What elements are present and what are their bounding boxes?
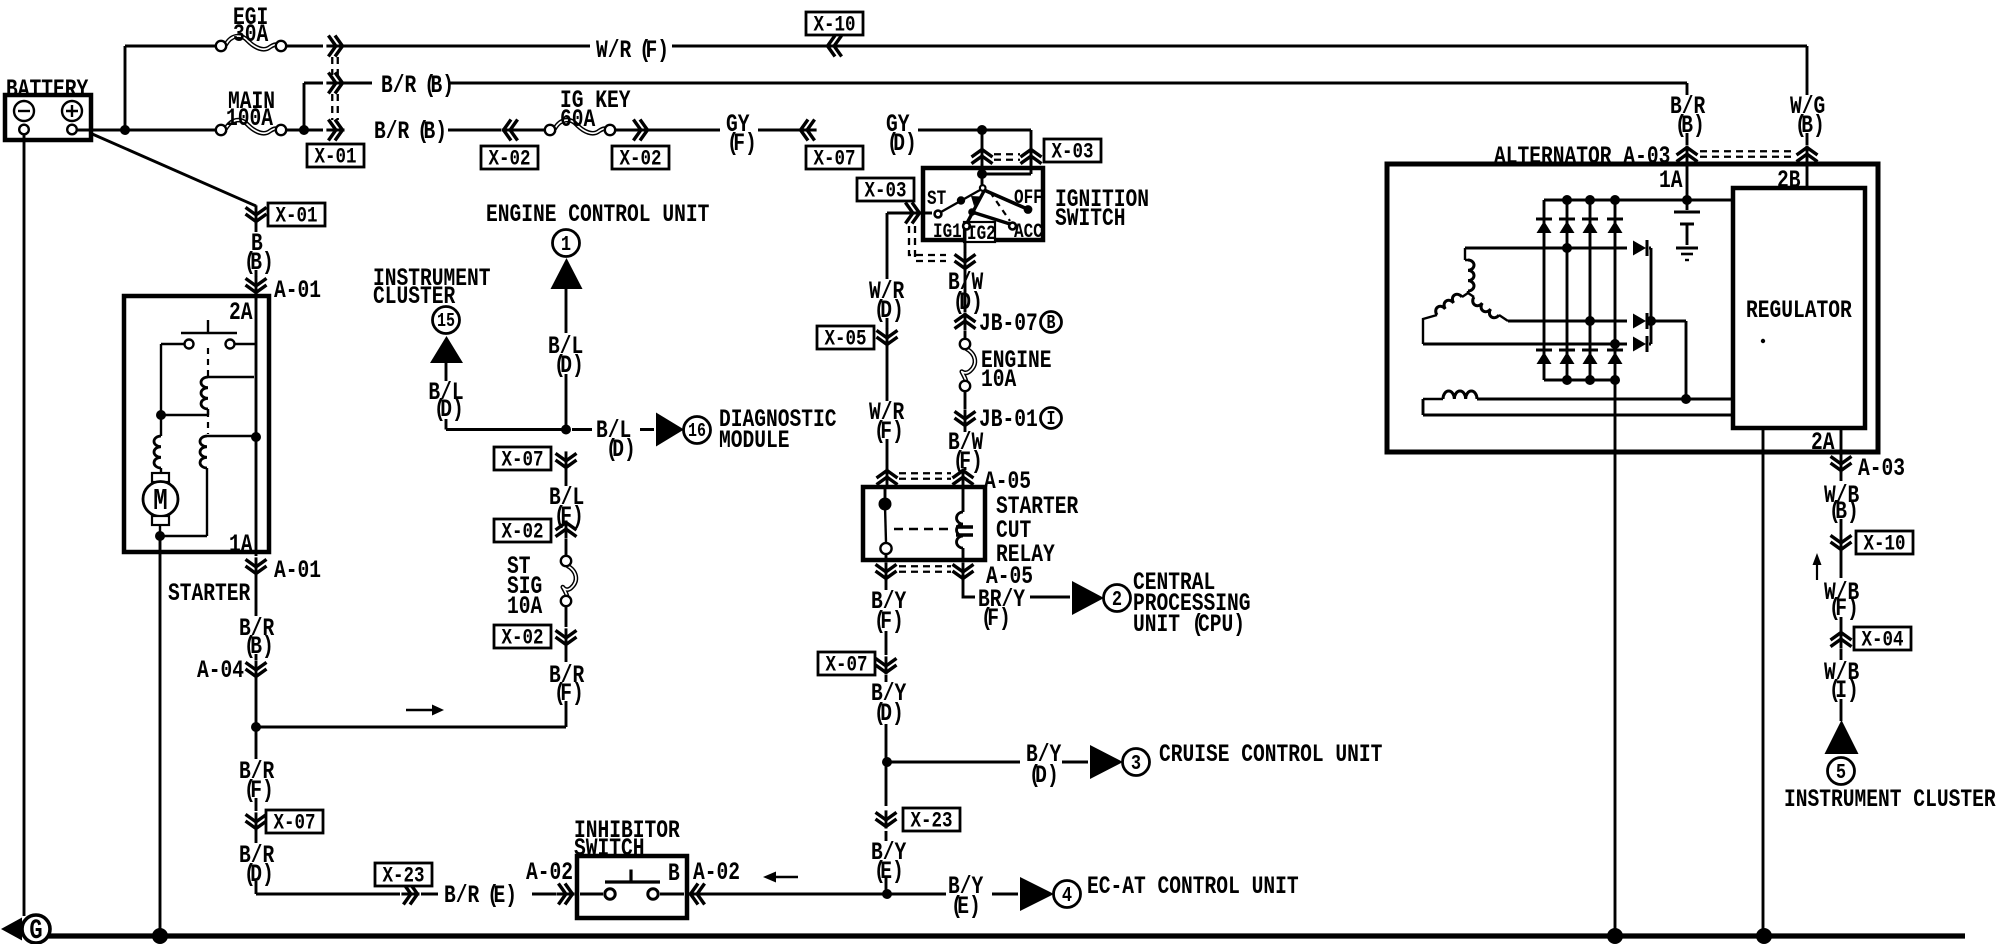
connector X-03 chevron ST wire	[903, 212, 921, 215]
wire ST to W/R	[887, 212, 932, 215]
regulator mark	[1761, 339, 1765, 343]
svg-text:(F): (F)	[554, 679, 584, 708]
svg-text:CRUISE CONTROL UNIT: CRUISE CONTROL UNIT	[1159, 740, 1382, 769]
svg-text:A-01: A-01	[274, 276, 321, 305]
ignition arm to ACC	[968, 208, 976, 216]
svg-text:100A: 100A	[226, 104, 274, 133]
wire starter motor to ground rail	[159, 536, 162, 936]
rectifier bottom bus	[1544, 379, 1615, 382]
wire B/W (D) seg	[964, 270, 967, 312]
svg-text:X-03: X-03	[865, 179, 907, 205]
svg-text:IG1: IG1	[933, 222, 962, 244]
node battery feed junction	[120, 125, 130, 135]
node B/L junction	[561, 425, 571, 435]
ignition ACC terminal	[1009, 223, 1016, 230]
wire W/R (D) seg	[886, 213, 889, 329]
wire W/R (F) seg2	[672, 45, 827, 48]
ignition dashed arm	[990, 192, 1010, 221]
wire EGI row left	[125, 45, 216, 48]
svg-text:(F): (F)	[727, 129, 757, 158]
svg-text:OFF: OFF	[1014, 188, 1043, 210]
node top bus d4	[1610, 195, 1620, 205]
connector X-10 chevron top row	[826, 45, 844, 48]
alternator box	[1387, 164, 1878, 452]
wire W/R (F) seg3	[842, 46, 1807, 95]
connector X-03 box left	[857, 178, 914, 201]
node circle 1 ECU	[553, 230, 580, 257]
wire IG2 down	[964, 229, 967, 253]
svg-text:(D): (D)	[874, 699, 904, 728]
svg-text:X-01: X-01	[276, 204, 318, 230]
wire 1A into box	[1686, 163, 1689, 200]
wire B/Y (E) seg	[885, 762, 888, 894]
connector X-01 chevron diagonal	[255, 205, 258, 223]
connector A-01 chevron bottom	[255, 557, 258, 575]
svg-text:X-07: X-07	[501, 448, 543, 474]
wire B/R (B) drop to alternator	[1686, 133, 1689, 145]
relay coil	[962, 487, 965, 512]
wire field diode to rotor	[1651, 321, 1686, 399]
diode D3 top	[1582, 218, 1598, 221]
connector X-03 chevron B/W wire	[964, 252, 967, 270]
ignition arm to ST	[941, 190, 980, 212]
wire rectifier to ground rail	[1614, 380, 1617, 936]
wire IG KEY leads	[519, 129, 650, 132]
arrow flow up	[1816, 560, 1818, 580]
svg-text:(E): (E)	[951, 892, 981, 921]
svg-text:(B): (B)	[244, 632, 274, 661]
svg-text:16: 16	[688, 422, 706, 443]
connector JB-07 circle B	[1041, 312, 1062, 333]
inhibitor contacts	[580, 893, 603, 896]
svg-text:(F): (F)	[981, 604, 1011, 633]
node top bus d3	[1585, 195, 1595, 205]
connector X-01 chevron EGI row	[326, 45, 344, 48]
connector X-07 chevron GY row	[799, 129, 817, 132]
wire to ENGINE fuse	[964, 331, 967, 340]
connector X-07 box B/R	[266, 810, 323, 833]
stator phase3 wire	[1423, 343, 1627, 346]
arrow to cruise control	[1090, 745, 1123, 779]
battery	[5, 95, 91, 140]
wire B/L cluster seg	[445, 363, 448, 381]
ignition ST terminal	[935, 211, 942, 218]
svg-text:X-04: X-04	[1861, 628, 1903, 654]
fuse ST SIG 10A	[563, 566, 576, 597]
ground symbol G	[1, 918, 22, 941]
connector X-03 box top	[1044, 139, 1101, 162]
svg-text:X-05: X-05	[825, 327, 867, 353]
wire inhibitor to junction	[687, 893, 887, 896]
wire B/R (B) starter seg	[255, 552, 258, 660]
wire riser to EGI fuse row	[124, 46, 127, 130]
diode D4 top	[1607, 218, 1623, 221]
stator coil C	[1468, 293, 1474, 297]
svg-text:X-10: X-10	[814, 13, 856, 39]
connector X-01 box diagonal	[268, 203, 325, 226]
wire B/Y (D) seg	[885, 675, 888, 762]
wire GY (F) seg	[648, 129, 720, 132]
svg-text:1A: 1A	[1659, 166, 1683, 195]
arrow flow inhibitor	[776, 876, 798, 878]
svg-text:A-02: A-02	[526, 858, 573, 887]
wire battery negative to ground	[23, 134, 26, 916]
starter switch dashes	[207, 348, 209, 377]
connector X-10 box top	[806, 12, 863, 35]
ignition arm to IG1	[967, 191, 984, 223]
rectifier leg3	[1589, 200, 1592, 380]
rectifier leg4	[1614, 200, 1617, 380]
diode D3 bottom	[1582, 349, 1598, 352]
svg-text:2B: 2B	[1777, 166, 1801, 195]
wire B/R (B) row seg1	[304, 82, 323, 85]
svg-text:(D): (D)	[887, 129, 917, 158]
node ignition internal junction	[977, 169, 987, 179]
svg-text:X-10: X-10	[1864, 532, 1906, 558]
svg-text:(F): (F)	[244, 776, 274, 805]
connector X-07 chevron B/Y	[885, 656, 888, 674]
svg-text:5: 5	[1836, 760, 1846, 784]
svg-text:X-01: X-01	[315, 145, 357, 171]
wire B/L (F) seg	[565, 469, 568, 486]
connector X-07 box ECU	[494, 447, 551, 470]
svg-text:(D): (D)	[874, 296, 904, 325]
wire cruise branch	[887, 761, 1088, 764]
starter motor M	[152, 473, 169, 482]
connector X-02 box left	[481, 146, 538, 169]
wire BR/Y seg	[963, 578, 1070, 597]
connector X-05 chevron	[886, 328, 889, 346]
svg-text:30A: 30A	[233, 20, 269, 49]
svg-text:JB-01: JB-01	[979, 405, 1038, 434]
starter cut relay box	[863, 487, 985, 560]
wire W/G (B) drop	[1806, 95, 1809, 145]
starter switch	[181, 320, 237, 333]
svg-text:2: 2	[1112, 587, 1122, 611]
wire W/B (B) seg	[1840, 471, 1843, 534]
capacitor C1	[1686, 200, 1689, 210]
node B/Y cruise junction	[882, 757, 892, 767]
connector X-02 chevron left of IG KEY fuse	[502, 129, 520, 132]
wire B/R (F) mid seg	[565, 646, 568, 727]
svg-text:(B): (B)	[1675, 111, 1705, 140]
svg-text:A-03: A-03	[1858, 454, 1905, 483]
svg-text:(B): (B)	[424, 71, 454, 100]
diode D1 bottom	[1536, 349, 1552, 352]
wire to ST SIG fuse	[565, 539, 568, 557]
node B/R branch junction	[251, 722, 261, 732]
stator coil B	[1462, 293, 1468, 297]
connector X-23 chevron	[885, 810, 888, 828]
svg-text:A-01: A-01	[274, 556, 321, 585]
node circle 15 cluster	[433, 307, 460, 334]
svg-text:W/R: W/R	[596, 36, 632, 65]
arrow ECU triangle	[551, 258, 583, 289]
connector JB-01 chevron	[964, 409, 967, 427]
wire ignition feed right drop	[1030, 130, 1033, 174]
svg-text:BATTERY: BATTERY	[6, 75, 89, 104]
svg-text:1A: 1A	[229, 530, 253, 559]
svg-text:X-02: X-02	[501, 520, 543, 546]
diode D2 top	[1559, 218, 1575, 221]
connector X-04 chevron	[1840, 631, 1843, 649]
ground rail	[30, 933, 1965, 938]
connector X-07 chevron ECU	[565, 451, 568, 469]
arrow to diagnostic module	[656, 413, 684, 447]
wire B/R row seg2	[343, 82, 372, 85]
connector X-23 chevron horizontal	[401, 893, 419, 896]
svg-text:15: 15	[437, 312, 455, 333]
wire B/W (F) seg	[964, 427, 967, 470]
connector X-02 box ST SIG top	[494, 519, 551, 542]
connector JB-07 chevron	[964, 313, 967, 331]
node field diode junction	[1646, 316, 1656, 326]
wire B/L to diagnostic	[572, 428, 654, 431]
connector A-03 chevron pair top of alternator	[1686, 146, 1689, 164]
connector X-01 chevron B/R row	[326, 82, 344, 85]
wire EGI fuse to X-01	[286, 45, 323, 48]
node B/Y EC-AT junction	[882, 889, 892, 899]
wire B/Y (F) seg	[885, 579, 888, 655]
wire into starter box	[255, 292, 258, 300]
svg-text:EC-AT CONTROL UNIT: EC-AT CONTROL UNIT	[1087, 872, 1299, 901]
connector X-07 box B/Y	[818, 652, 875, 675]
diode field D5	[1633, 241, 1646, 256]
node starter bus junction	[251, 432, 261, 442]
connector X-10 box right	[1856, 531, 1913, 554]
stator phase1 wire	[1465, 247, 1627, 250]
rotor lower wire	[1423, 399, 1733, 415]
svg-text:X-07: X-07	[826, 653, 868, 679]
rotor coil	[1423, 398, 1443, 400]
wire B (B) seg	[255, 222, 258, 277]
wire branch to ST SIG	[256, 726, 566, 729]
rectifier leg2	[1566, 200, 1569, 380]
wire regulator left to ground rail	[1762, 428, 1765, 936]
svg-text:X-07: X-07	[814, 147, 856, 173]
ignition pivot	[981, 176, 984, 185]
node starter motor junction	[160, 535, 207, 537]
wire battery positive feed	[77, 129, 216, 132]
svg-text:X-02: X-02	[620, 147, 662, 173]
connector X-02 box ST SIG bottom	[494, 625, 551, 648]
svg-text:(D): (D)	[434, 395, 464, 424]
wire ST SIG fuse out	[565, 607, 568, 627]
wire GY seg2	[758, 129, 800, 132]
node starter coil junction	[161, 414, 208, 416]
node bottom bus d4	[1610, 375, 1620, 385]
svg-text:(D): (D)	[1029, 761, 1059, 790]
svg-text:2A: 2A	[1811, 428, 1835, 457]
svg-text:X-03: X-03	[1052, 140, 1094, 166]
svg-text:IG2: IG2	[967, 224, 996, 246]
starter box	[124, 296, 269, 552]
connector X-01 dashes	[331, 57, 333, 75]
stator phase2 wire	[1508, 320, 1627, 323]
node circle 3 cruise	[1123, 749, 1150, 776]
connector X-03 dashed link	[909, 226, 946, 255]
arrow to EC-AT	[1020, 877, 1054, 911]
node circle 2 CPU	[1104, 585, 1131, 612]
connector A-05 chevron pair bottom	[885, 562, 888, 580]
svg-text:B/R: B/R	[381, 71, 417, 100]
wire B/R (F) left seg	[255, 727, 258, 811]
arrow cluster triangle	[430, 336, 463, 363]
svg-text:SWITCH: SWITCH	[574, 834, 645, 863]
starter field coil	[160, 344, 162, 436]
svg-text:INSTRUMENT CLUSTER: INSTRUMENT CLUSTER	[1784, 785, 1996, 814]
arrow flow branch	[406, 709, 432, 711]
svg-text:X-07: X-07	[274, 811, 316, 837]
wire EC-AT branch	[887, 893, 1018, 896]
svg-text:X-23: X-23	[910, 809, 952, 835]
svg-text:(F): (F)	[639, 36, 669, 65]
connector A-05 chevron pair top	[886, 469, 889, 487]
wire W/R (F) drop	[886, 346, 889, 470]
svg-text:B/R: B/R	[444, 881, 480, 910]
svg-text:(B): (B)	[244, 248, 274, 277]
ground symbol alternator	[1676, 247, 1698, 250]
starter pull-in coil	[201, 377, 208, 409]
fuse ENGINE 10A	[962, 349, 975, 382]
connector X-23 box horizontal	[375, 863, 432, 886]
connector X-02 chevron right of IG KEY fuse	[631, 129, 649, 132]
connector A-02 chevron right	[689, 893, 707, 896]
wire W/R (F) seg1	[343, 45, 590, 48]
connector X-10 chevron right	[1840, 533, 1843, 551]
field diode bus	[1649, 248, 1651, 344]
svg-text:ACC: ACC	[1014, 222, 1043, 244]
ignition switch box	[923, 168, 1043, 240]
svg-text:2A: 2A	[229, 298, 253, 327]
rectifier leg1	[1543, 200, 1546, 380]
regulator box	[1733, 188, 1865, 428]
svg-text:STARTER: STARTER	[168, 579, 251, 608]
connector X-07 chevron B/R	[255, 812, 258, 830]
wire B/R (E) horizontal	[256, 893, 556, 896]
svg-text:G: G	[29, 915, 42, 944]
rectifier top bus	[1544, 199, 1733, 202]
wire regulator right terminal 2A	[1840, 428, 1843, 455]
svg-text:ALTERNATOR A-03: ALTERNATOR A-03	[1494, 142, 1670, 171]
svg-text:ENGINE CONTROL UNIT: ENGINE CONTROL UNIT	[486, 200, 709, 229]
svg-text:1: 1	[561, 232, 571, 256]
wire ignition feed left drop	[981, 130, 984, 176]
svg-text:(B): (B)	[1795, 111, 1825, 140]
diode D4 bottom	[1607, 349, 1623, 352]
wire 2B into box	[1806, 163, 1809, 188]
svg-text:X-02: X-02	[501, 626, 543, 652]
wire B/R row seg3	[448, 83, 1687, 95]
node main row junction	[299, 125, 309, 135]
wire B/L (D) ECU seg	[565, 289, 568, 429]
svg-text:(D): (D)	[554, 351, 584, 380]
connector X-05 box	[817, 326, 874, 349]
wire riser main to B/R row	[303, 83, 306, 130]
svg-text:(F): (F)	[874, 607, 904, 636]
node phase2 junction	[1585, 316, 1595, 326]
svg-text:A-04: A-04	[197, 656, 244, 685]
ignition arm to OFF	[984, 190, 1025, 208]
svg-text:B/R: B/R	[374, 117, 410, 146]
ignition IG1 terminal	[963, 223, 970, 230]
node top bus d2	[1562, 195, 1572, 205]
ignition IG2 label box	[964, 222, 995, 242]
node rotor junction	[1681, 394, 1691, 404]
arrow instrument cluster triangle	[1825, 720, 1859, 754]
node rail starter	[152, 928, 168, 944]
relay dashed link	[894, 528, 951, 531]
connector X-01 box main row	[307, 144, 364, 167]
fuse EGI 30A	[226, 36, 277, 49]
svg-text:SWITCH: SWITCH	[1055, 204, 1126, 233]
svg-text:(F): (F)	[953, 447, 983, 476]
svg-text:B: B	[1047, 314, 1056, 335]
connector JB-01 circle I	[1041, 408, 1062, 429]
connector X-02 box right	[612, 146, 669, 169]
wire W/B (F) seg	[1840, 551, 1843, 631]
node phase1 junction	[1562, 243, 1572, 253]
node GY ignition junction	[977, 125, 987, 135]
node circle 5 instrument cluster	[1828, 758, 1855, 785]
wire W/B (I) seg	[1840, 649, 1843, 721]
connector X-02 chevron ST SIG bottom	[565, 628, 568, 646]
node bottom bus d2	[1562, 375, 1572, 385]
svg-text:A-02: A-02	[693, 858, 740, 887]
connector A-01 chevron top	[255, 276, 258, 294]
svg-text:(F): (F)	[874, 417, 904, 446]
node circle 4 EC-AT	[1054, 881, 1081, 908]
relay contact	[884, 487, 887, 503]
svg-text:(D): (D)	[244, 860, 274, 889]
svg-text:M: M	[153, 484, 167, 518]
svg-text:X-02: X-02	[488, 147, 530, 173]
svg-text:REGULATOR: REGULATOR	[1746, 296, 1852, 325]
svg-text:3: 3	[1131, 751, 1141, 775]
connector A-02 chevron left	[556, 893, 574, 896]
connector X-04 box	[1854, 627, 1911, 650]
connector X-07 box GY row	[806, 146, 863, 169]
stator coil A	[1464, 248, 1466, 260]
connector X-03 chevron pair above ignition switch	[981, 148, 984, 166]
diode field D7	[1633, 337, 1646, 352]
node top bus 1A	[1682, 195, 1692, 205]
wire B/R to junction	[255, 677, 258, 727]
starter hold coil	[200, 436, 207, 468]
svg-text:MODULE: MODULE	[719, 426, 790, 455]
svg-text:B: B	[668, 859, 680, 888]
svg-text:X-23: X-23	[383, 864, 425, 890]
connector A-04 chevron	[255, 660, 258, 678]
wire cluster L to junction	[446, 419, 566, 430]
arrow to CPU	[1072, 581, 1104, 615]
svg-text:(E): (E)	[487, 881, 517, 910]
svg-text:10A: 10A	[507, 592, 543, 621]
diode D1 top	[1536, 218, 1552, 221]
node bottom bus d3	[1585, 375, 1595, 385]
connector X-02 chevron ST SIG top	[565, 521, 568, 539]
starter right bus	[255, 296, 258, 552]
svg-text:(I): (I)	[1829, 676, 1859, 705]
node rail alternator	[1607, 928, 1623, 944]
svg-text:(B): (B)	[1829, 497, 1859, 526]
connector X-01 chevron main row	[326, 129, 344, 132]
svg-text:JB-07: JB-07	[979, 309, 1038, 338]
svg-text:CLUSTER: CLUSTER	[373, 282, 456, 311]
node circle 16 diagnostic	[684, 417, 711, 444]
diode D2 bottom	[1559, 349, 1575, 352]
svg-text:60A: 60A	[560, 105, 596, 134]
